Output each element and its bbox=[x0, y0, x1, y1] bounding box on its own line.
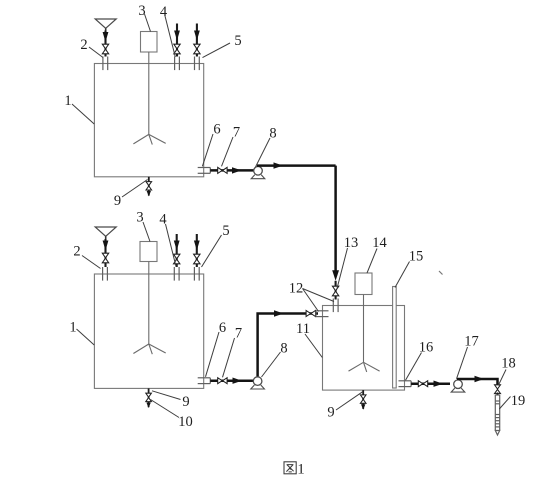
leader 5 bbox=[203, 43, 231, 58]
tank 2 top nozzle b bbox=[173, 267, 175, 281]
valve 12 horizontal bbox=[306, 311, 315, 317]
valve on outlet bbox=[418, 381, 427, 387]
feed valve 2 line bbox=[104, 31, 106, 57]
svg-text:9: 9 bbox=[182, 394, 189, 410]
leader bbox=[305, 334, 322, 358]
leader bbox=[499, 397, 510, 410]
drain valve 9 tank 3 bbox=[362, 390, 364, 409]
feed line 5 tank 1 bbox=[196, 24, 198, 57]
leader 12a bbox=[303, 289, 335, 302]
svg-text:18: 18 bbox=[501, 356, 516, 372]
reactor tank 1 body bbox=[94, 64, 203, 177]
svg-text:1: 1 bbox=[69, 320, 76, 336]
stirrer tank 3 bbox=[363, 295, 365, 363]
leader bbox=[151, 400, 180, 418]
svg-text:7: 7 bbox=[233, 125, 240, 141]
feed line 4 tank 1 bbox=[176, 24, 178, 57]
leader bbox=[82, 256, 101, 269]
svg-text:3: 3 bbox=[136, 210, 143, 226]
svg-text:5: 5 bbox=[222, 223, 229, 239]
leader bbox=[262, 352, 281, 377]
leader bbox=[143, 222, 150, 242]
tank 2 top nozzle c bbox=[193, 267, 195, 281]
svg-text:7: 7 bbox=[235, 326, 242, 342]
flow arrow bbox=[232, 167, 242, 173]
svg-text:8: 8 bbox=[280, 341, 287, 357]
leader 3 bbox=[145, 14, 151, 32]
pipe tank3 outlet bbox=[411, 382, 450, 385]
pump 8 tank 1 bbox=[251, 175, 265, 179]
svg-text:9: 9 bbox=[327, 405, 334, 421]
svg-text:4: 4 bbox=[160, 4, 168, 20]
flow arrow down bbox=[332, 270, 339, 281]
valve 7 tank 2 bbox=[218, 378, 227, 384]
leader bbox=[152, 391, 181, 400]
svg-text:12: 12 bbox=[289, 281, 304, 297]
pipe pump17 discharge bbox=[457, 379, 498, 385]
leader bbox=[202, 235, 222, 267]
reactor tank 2 body bbox=[94, 274, 203, 388]
svg-text:2: 2 bbox=[73, 244, 80, 260]
leader bbox=[406, 353, 422, 381]
motor 14 bbox=[355, 273, 372, 295]
leader bbox=[395, 262, 410, 288]
svg-text:6: 6 bbox=[213, 122, 220, 138]
drain valve 9 tank 2 bbox=[148, 388, 150, 407]
outlet nozzle 16 bbox=[399, 380, 412, 382]
svg-text:6: 6 bbox=[219, 320, 226, 336]
stirrer tank 2 bbox=[148, 262, 150, 345]
tank 1 top nozzle b bbox=[174, 57, 176, 71]
caption 图1 bbox=[284, 462, 296, 474]
svg-text:5: 5 bbox=[234, 33, 241, 49]
svg-text:10: 10 bbox=[178, 414, 193, 430]
valve 18 bbox=[495, 385, 501, 394]
leader 4 bbox=[165, 16, 175, 57]
leader 7 bbox=[222, 137, 234, 166]
leader bbox=[206, 332, 220, 377]
leader bbox=[166, 224, 177, 267]
pipe pump8b riser bbox=[258, 314, 318, 377]
leader 12b bbox=[303, 289, 319, 312]
tank 1 top nozzle a bbox=[102, 57, 104, 71]
leader 2 bbox=[89, 47, 103, 58]
tank 1 top nozzle c bbox=[194, 57, 196, 71]
dip tube 19 bbox=[494, 395, 496, 431]
flow arrow bbox=[274, 162, 284, 168]
pipe tank1 outlet bbox=[210, 169, 254, 172]
svg-text:17: 17 bbox=[464, 334, 479, 350]
svg-text:15: 15 bbox=[409, 249, 424, 265]
motor M3 tank 2 bbox=[140, 242, 157, 262]
leader bbox=[223, 338, 235, 377]
pipe pump8 discharge bbox=[257, 164, 336, 167]
svg-text:1: 1 bbox=[64, 93, 71, 109]
svg-text:9: 9 bbox=[114, 193, 121, 209]
leader bbox=[498, 370, 506, 386]
leader 1 bbox=[72, 104, 94, 124]
svg-text:19: 19 bbox=[511, 393, 526, 409]
svg-text:8: 8 bbox=[269, 126, 276, 142]
leader bbox=[336, 392, 363, 410]
tank 3 top nozzle bbox=[332, 299, 334, 313]
leader bbox=[457, 347, 468, 379]
pump 8 tank 2 bbox=[251, 385, 265, 389]
tank 11 body bbox=[323, 306, 405, 391]
feed valve 2 line tank2 bbox=[104, 239, 106, 267]
tick mark bbox=[439, 271, 443, 275]
tank 2 top nozzle a bbox=[102, 267, 104, 281]
leader bbox=[337, 248, 348, 289]
tank 3 left inlet nozzle bbox=[316, 310, 329, 312]
stirrer tank 1 bbox=[148, 52, 150, 134]
leader 9 bbox=[122, 180, 148, 198]
flow arrow bbox=[233, 378, 243, 384]
leader 8 bbox=[256, 138, 271, 167]
svg-text:13: 13 bbox=[344, 235, 359, 251]
valve 7 bbox=[218, 167, 227, 173]
baffle plate 15 bbox=[393, 287, 397, 389]
outlet nozzle 6 tank 2 bbox=[198, 377, 211, 379]
outlet nozzle 6 tank 1 bbox=[198, 167, 211, 169]
leader bbox=[367, 249, 377, 274]
leader 6 bbox=[202, 134, 213, 166]
flow arrow bbox=[434, 381, 444, 387]
drain valve 9 tank 1 bbox=[148, 177, 150, 196]
flow arrow bbox=[475, 376, 485, 382]
leader bbox=[77, 329, 95, 345]
motor M3 tank 1 bbox=[141, 32, 158, 53]
pipe to dip tube bbox=[497, 393, 499, 396]
pipe down to tank 3 bbox=[334, 166, 337, 272]
svg-text:14: 14 bbox=[372, 235, 387, 251]
svg-text:11: 11 bbox=[296, 321, 310, 337]
svg-text:2: 2 bbox=[80, 37, 87, 53]
feed funnel tank 1 bbox=[95, 19, 116, 28]
svg-text:3: 3 bbox=[138, 3, 145, 19]
pipe into valve 13 bbox=[335, 281, 337, 300]
pump 17 bbox=[451, 388, 465, 392]
feed funnel tank 2 bbox=[95, 227, 116, 236]
pipe tank2 outlet bbox=[210, 379, 253, 382]
feed line 4 tank 2 bbox=[176, 234, 178, 267]
valve 13 bbox=[332, 286, 338, 296]
flow arrow bbox=[274, 310, 284, 316]
feed line 5 tank 2 bbox=[196, 234, 198, 267]
svg-text:1: 1 bbox=[297, 462, 305, 478]
